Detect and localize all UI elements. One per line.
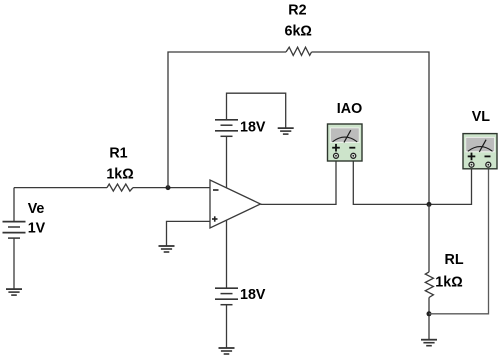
ground for bottom battery xyxy=(219,348,235,354)
resistor R1 xyxy=(107,184,133,191)
op-amp minus sign xyxy=(213,189,219,191)
node C: RL bottom junction xyxy=(427,311,432,316)
op-amp plus sign xyxy=(212,216,218,221)
node A: junction of R1, R2 and inverting input xyxy=(166,185,171,190)
svg-text:1kΩ: 1kΩ xyxy=(435,275,462,291)
wire: RL bottom to ground xyxy=(428,298,430,340)
ammeter IAO xyxy=(328,124,363,161)
wire: RL bottom node to voltmeter VL right terminal xyxy=(429,167,489,314)
battery V1 18V (top) xyxy=(215,120,238,137)
wire: output node down to RL xyxy=(428,204,430,272)
op-amp U1 xyxy=(210,180,261,228)
svg-text:1V: 1V xyxy=(28,221,46,237)
ground below RL xyxy=(421,340,437,346)
battery V2 18V (bottom) xyxy=(215,288,238,305)
svg-text:RL: RL xyxy=(445,252,464,268)
resistor R2 xyxy=(286,47,312,55)
wire: positive supply pin xyxy=(226,136,228,188)
wire: input net from Ve to op-amp inverting input xyxy=(14,187,210,189)
svg-text:IAO: IAO xyxy=(337,101,362,117)
ground below Ve xyxy=(6,289,22,295)
ground for top battery xyxy=(278,128,294,134)
svg-text:Ve: Ve xyxy=(28,201,45,217)
resistor RL xyxy=(425,272,433,298)
wire: negative supply pin xyxy=(226,220,228,288)
battery source Ve xyxy=(3,222,26,239)
svg-text:6kΩ: 6kΩ xyxy=(285,23,312,39)
wire: ammeter IAO right terminal to output node xyxy=(353,161,471,204)
wire: Ve positive lead xyxy=(13,188,15,222)
svg-text:1kΩ: 1kΩ xyxy=(106,167,133,183)
voltmeter VL xyxy=(463,134,497,169)
wire: bottom battery to ground xyxy=(226,305,228,348)
svg-text:VL: VL xyxy=(472,109,491,125)
node B: output node junction xyxy=(427,202,432,207)
svg-text:18V: 18V xyxy=(240,120,266,136)
wire: Ve negative lead to ground xyxy=(13,238,15,289)
svg-text:18V: 18V xyxy=(240,287,266,303)
ground at non-inverting input xyxy=(159,246,175,252)
wire: non-inverting input to ground xyxy=(167,221,211,246)
wire: feedback net up and across to R2 xyxy=(168,52,429,204)
svg-text:R2: R2 xyxy=(288,3,306,19)
wire: top battery to ground xyxy=(227,93,286,128)
wire: op-amp output to ammeter IAO left terminal xyxy=(261,161,337,204)
svg-text:R1: R1 xyxy=(109,146,127,162)
